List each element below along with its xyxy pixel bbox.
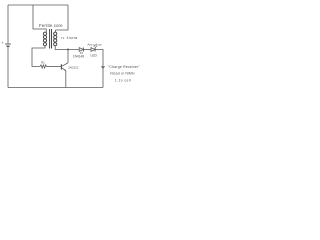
transformer T1 secondary winding (right)	[54, 32, 57, 46]
svg-text:+: +	[1, 40, 4, 45]
svg-text:1N4148: 1N4148	[73, 54, 84, 58]
svg-text:Ferrite core: Ferrite core	[39, 23, 63, 28]
svg-text:Nicad or NiMH: Nicad or NiMH	[110, 71, 135, 75]
svg-text:1.2v cell: 1.2v cell	[115, 79, 132, 83]
svg-text:"Charge Receiver": "Charge Receiver"	[108, 65, 140, 69]
LED D2	[91, 45, 97, 51]
wire LED to output	[95, 50, 103, 88]
wire left side (battery top lead)	[7, 5, 9, 44]
wire base	[47, 66, 61, 68]
transformer core	[50, 29, 52, 49]
svg-text:T1: T1	[61, 36, 65, 40]
battery B1	[5, 44, 11, 46]
svg-text:LED: LED	[91, 53, 98, 57]
wire secondary top to rail	[56, 5, 68, 32]
wire feedback return (winding bottom to R1)	[32, 46, 45, 67]
wire top rail	[8, 4, 68, 6]
wire left side (battery bottom lead)	[7, 47, 9, 88]
wire D1 to LED	[83, 49, 91, 51]
resistor R1	[40, 65, 47, 68]
svg-text:R1: R1	[41, 61, 45, 65]
svg-text:4 turns: 4 turns	[67, 36, 78, 40]
diode D1	[79, 48, 83, 52]
svg-text:2N2222: 2N2222	[68, 66, 79, 70]
output polarity marker	[101, 67, 105, 69]
wire bottom rail	[8, 87, 103, 89]
transistor Q1	[61, 50, 68, 88]
transformer T1 primary winding (left)	[43, 32, 46, 46]
svg-text:Any colour: Any colour	[87, 43, 101, 47]
wire center-tap branch	[33, 5, 46, 32]
node collector junction	[67, 49, 69, 51]
wire secondary bottom to collector node	[55, 46, 79, 50]
